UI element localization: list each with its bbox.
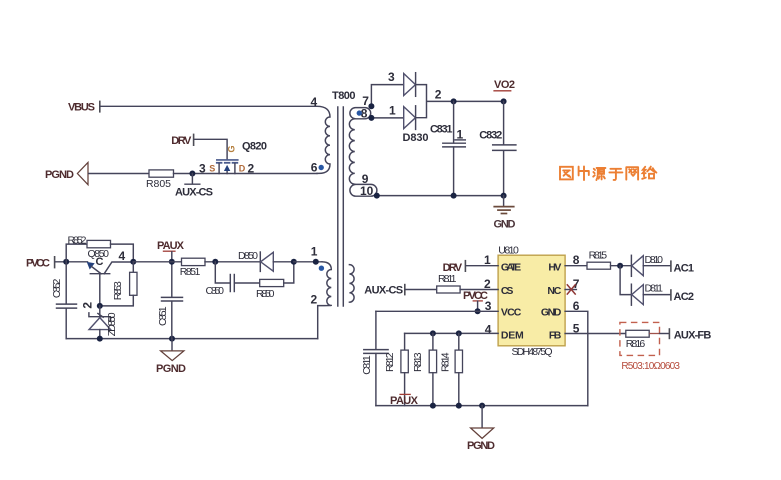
wire VCC rail [376,310,498,312]
svg-text:VCC: VCC [501,307,522,319]
ground PGND middle [156,339,186,375]
resistor R815 [587,250,611,270]
label D830 [403,132,429,144]
node AC2 [671,289,694,303]
svg-text:C831: C831 [430,124,453,136]
pin 2 label Q820 [248,161,255,175]
resistor R814 [440,333,463,405]
node AUX-CS lower [364,284,405,297]
wire R815 to diodes [611,265,632,267]
junction DEM R814 [456,330,462,336]
watermark char 5 [626,167,638,179]
svg-text:8: 8 [573,253,580,267]
wire VBUS to T800 pin 4 [101,105,317,107]
svg-text:1: 1 [389,103,396,117]
svg-text:PAUX: PAUX [157,240,185,252]
svg-text:AC2: AC2 [674,291,695,303]
svg-text:R814: R814 [440,352,452,372]
pin 3 label U810 [485,299,492,313]
wire PGND to R805 [89,173,149,175]
junction PVCC [63,259,69,265]
label C832 [479,129,502,141]
junction D850 anode branch [212,259,218,265]
wire bottom rail right [376,405,588,407]
svg-text:R805: R805 [146,178,171,190]
svg-text:AC1: AC1 [674,263,695,275]
junction PVCC VCC [475,308,481,314]
svg-text:PVCC: PVCC [26,257,50,269]
wire DEM rail [405,332,499,334]
svg-text:GND: GND [494,219,516,231]
pin 5 label U810 [573,321,580,335]
transformer secondary bottom loop pins 9-10 [350,184,377,196]
resistor R850 [256,279,284,300]
svg-text:1: 1 [311,245,318,259]
wire R811 to CS [460,289,498,291]
pin 4 label U810 [485,323,492,337]
pin 6 label U810 [573,299,580,313]
svg-text:C850: C850 [206,285,225,297]
svg-text:PVCC: PVCC [463,290,488,302]
junction AUX-CS [189,171,195,177]
wire to aux winding pin 1 [294,261,322,263]
svg-text:AUX-CS: AUX-CS [364,285,403,297]
wire secondary bottom rail [377,195,504,197]
watermark char 6 [642,167,656,179]
node AUX-FB [669,328,711,341]
svg-text:SDH4875Q: SDH4875Q [512,346,553,358]
svg-text:R503:10Ω0603: R503:10Ω0603 [621,361,680,372]
polarity dot aux [319,266,324,271]
node DRV top [171,134,193,147]
label C831 [430,124,465,142]
watermark char 3 [593,168,605,180]
svg-text:4: 4 [485,323,492,337]
svg-text:FB: FB [549,330,562,342]
wire bottom rail lower-left [66,338,318,340]
wire R850 up to node [284,262,294,283]
wire pin 7 to D830 [371,85,403,107]
pin 8 label U810 [573,253,580,267]
wire PVCC to Q850 emitter [55,261,87,263]
svg-text:R811: R811 [438,273,457,285]
capacitor C851 [157,262,183,339]
transformer T800 secondary winding top loop pins 7-8 [350,108,371,119]
ground GND [493,196,515,231]
junction node 2 [451,98,457,104]
junction pin 10 [374,193,380,199]
zener diode ZD850 [89,306,118,339]
watermark char 1 [560,167,573,180]
junction C831 bottom [451,193,457,199]
note R503 value [621,361,680,372]
node VBUS [68,101,100,114]
svg-text:C832: C832 [479,129,502,141]
pin 2 label [435,87,442,101]
svg-text:PGND: PGND [156,363,186,375]
label T800 [332,90,356,102]
diode D830 pin 3 top [404,73,416,97]
pin 2 label aux [311,293,318,307]
svg-text:GATE: GATE [501,262,521,274]
svg-text:ZD850: ZD850 [106,312,118,336]
node DRV U810 [443,260,466,274]
svg-text:C852: C852 [51,278,63,298]
svg-text:C: C [96,256,104,268]
wire AUX-CS to R811 [405,289,436,291]
diode D810 [631,254,670,276]
junction rail R814 [456,403,462,409]
transformer T800 primary winding pins 4-6 [316,106,330,173]
pin 1 label aux [311,245,318,259]
pin 1 label U810 [484,253,491,267]
svg-text:S: S [209,163,215,173]
pin 2 label U810 [484,277,491,291]
label Q820 [242,140,267,152]
junction rail R813 [430,403,436,409]
junction pin 7 [368,103,374,109]
svg-text:DEM: DEM [501,330,524,342]
polarity dot pin 8 [357,110,362,115]
svg-text:R852: R852 [68,234,87,246]
wire DRV to GATE [466,265,498,267]
ground PGND left [45,162,88,184]
svg-text:T800: T800 [332,90,356,102]
svg-text:D811: D811 [645,283,664,295]
junction pin 1 [313,259,319,265]
svg-text:G: G [226,145,236,152]
pin 3 label [388,70,395,84]
wire DRV to Q820 gate [194,139,227,159]
junction DEM R813 [430,330,436,336]
junction VO2 [501,98,507,104]
svg-text:R851: R851 [180,266,201,278]
pin 10 label [360,184,374,198]
svg-text:VO2: VO2 [494,79,515,91]
wire pin 5 FB to R816 [565,333,626,335]
svg-text:R853: R853 [112,281,124,300]
svg-text:CS: CS [501,285,514,297]
wire pin 8 HV to R815 [565,265,587,267]
svg-text:PGND: PGND [45,169,74,181]
wire pin 8 to D830 [371,117,403,119]
resistor R851 [180,258,205,278]
svg-text:6: 6 [311,160,318,174]
junction pin 8 [368,115,374,121]
capacitor C811 [361,311,388,405]
resistor R811 [437,273,460,293]
svg-text:D: D [239,163,246,173]
wire node4 to R851 [133,261,181,263]
resistor R853 [100,262,137,306]
svg-text:PAUX: PAUX [390,395,419,407]
svg-text:D830: D830 [403,132,429,144]
node PVCC U810 [463,290,488,311]
junction node 2 base [81,302,103,309]
svg-text:PGND: PGND [467,440,495,452]
diode D830 pin 1 bottom [404,106,416,130]
diode D850 [238,250,294,271]
transformer secondary winding body [349,119,354,184]
svg-text:R850: R850 [256,288,275,300]
svg-text:C851: C851 [157,306,169,326]
svg-text:4: 4 [311,95,318,109]
diode D811 [620,266,670,306]
resistor R805 [146,170,174,190]
svg-text:2: 2 [81,302,95,309]
junction PAUX [169,259,175,265]
svg-text:3: 3 [388,70,395,84]
node PVCC left [26,256,55,269]
transistor Q820 [209,145,245,173]
transistor Q850 [87,262,134,306]
pin 3 label Q820 [199,161,206,175]
watermark char 2 [579,166,589,180]
transformer aux winding pins 1-2 [318,262,332,339]
svg-text:R812: R812 [384,352,396,372]
wire R851 to D850 [205,261,260,263]
svg-text:2: 2 [311,293,318,307]
capacitor C852 [51,262,77,339]
svg-text:10: 10 [360,184,374,198]
polarity dot pin 6 [319,165,324,170]
junction rail PGND [479,403,485,409]
svg-text:GND: GND [541,307,562,319]
resistor R852 [66,234,133,261]
junction C832 bottom [501,193,507,199]
svg-text:VBUS: VBUS [68,102,95,114]
svg-text:NC: NC [547,285,561,297]
svg-text:R816: R816 [626,338,646,350]
node VO2 [493,79,515,91]
svg-text:D810: D810 [645,254,664,266]
svg-text:U810: U810 [498,244,519,256]
pin 9 label [362,172,369,186]
pin 1 label [389,103,396,117]
transformer core [338,107,344,306]
capacitor C831 [443,101,466,195]
svg-text:C811: C811 [361,355,373,375]
node PAUX top [157,240,185,262]
svg-text:4: 4 [119,249,126,263]
junction D850 cathode [291,259,297,265]
svg-text:D850: D850 [238,250,258,262]
node PAUX bottom [390,394,419,406]
svg-text:1: 1 [484,253,491,267]
ground PGND bottom [467,406,495,452]
pin 7 NC stub [565,284,576,294]
pin 4 label [311,95,318,109]
wire R816 to AUX-FB [649,333,668,335]
capacitor C832 [493,101,516,195]
node AC1 [671,260,694,274]
capacitor C850 [206,275,235,298]
svg-text:R813: R813 [412,352,424,372]
wire pin 6 GND down [565,311,588,405]
pin 7 label [362,94,369,108]
IC U810 [498,244,565,357]
resistor R816 [626,330,650,350]
wire D830 outputs bus [416,85,504,118]
label Q850 [88,248,110,268]
transformer floating winding [349,265,354,303]
svg-text:DRV: DRV [171,135,192,147]
pin 6 label [311,160,318,174]
wire snubber branch C850 R850 [215,262,259,283]
resistor R812 [384,333,409,405]
svg-text:2: 2 [435,87,442,101]
node AUX-CS top [175,174,213,199]
watermark char 4 [609,169,622,180]
junction HV diodes [617,263,623,269]
node 4 junction [119,249,137,265]
svg-text:AUX-FB: AUX-FB [674,329,712,341]
dashed highlight box R816 [620,322,660,355]
svg-text:R815: R815 [589,250,608,262]
svg-text:Q820: Q820 [242,140,267,152]
junction ZD850 anode [97,336,103,342]
wire R805 to Q820 and T800 pin 6 [174,173,318,175]
svg-text:AUX-CS: AUX-CS [175,187,213,199]
pin 8 label [361,106,368,120]
pin 7 label U810 [573,277,580,291]
svg-text:HV: HV [548,262,561,274]
resistor R813 [412,333,437,405]
junction C851 bottom [169,336,175,342]
